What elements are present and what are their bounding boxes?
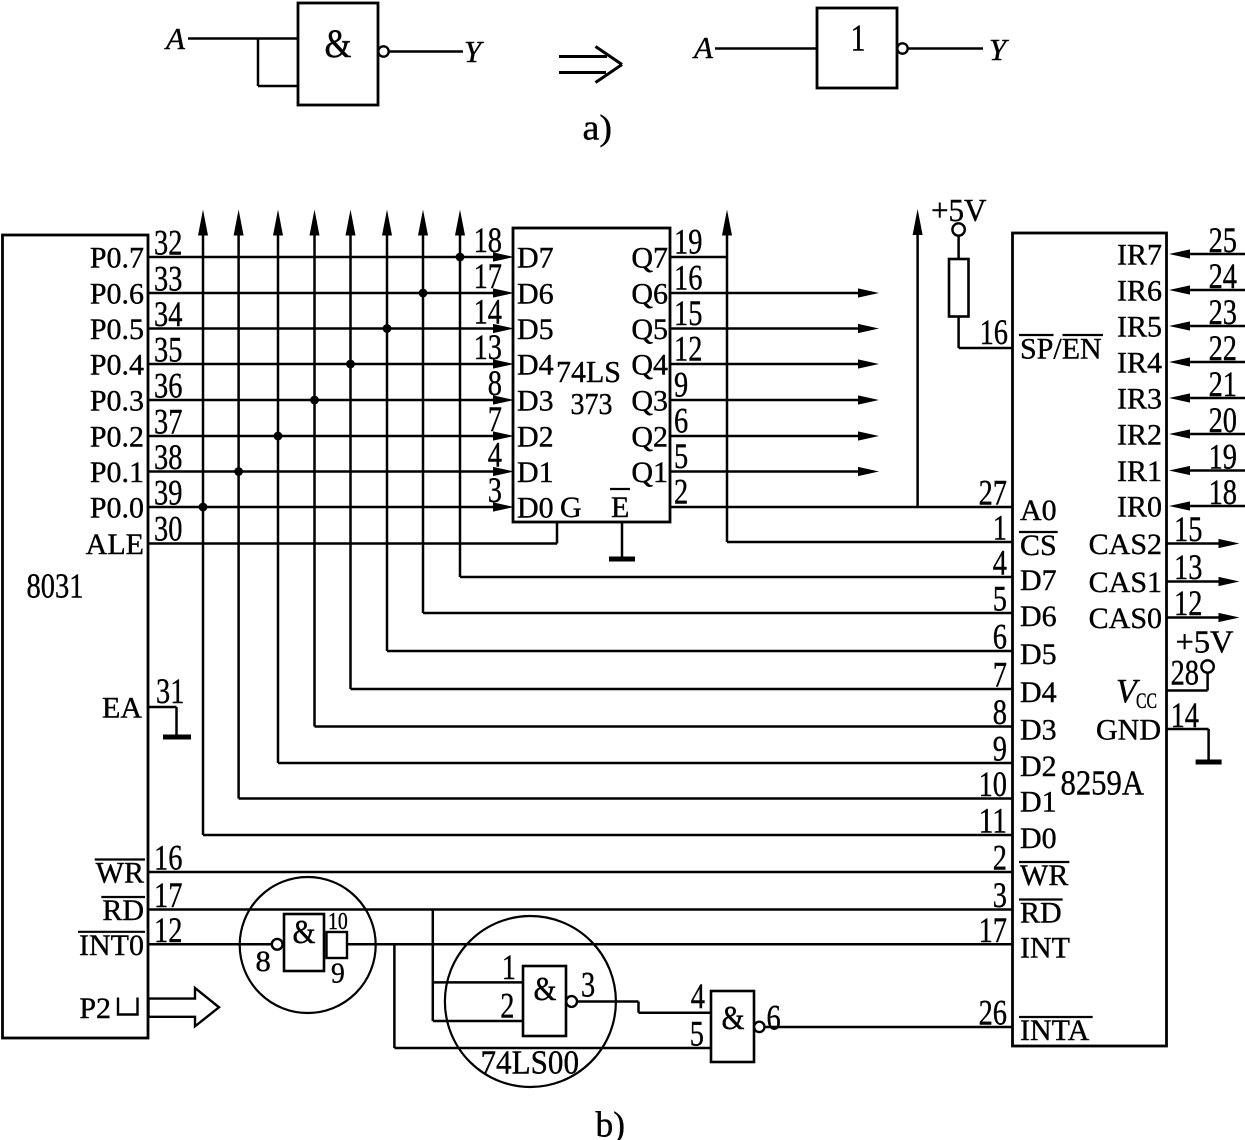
ground symbol (8259A GND) [1196,760,1222,765]
NAND gate U4B body [523,966,566,1036]
bus up-arrow A7 [455,210,465,236]
junction dot P0.0 / address bus tap [199,503,208,512]
arrowhead into 74LS373 D0 [493,502,514,511]
wire D2 to 8259A (horizontal) [278,762,1013,765]
wire ALE to 74LS373 G [148,542,557,545]
arrowhead into IR1 [1169,466,1190,475]
wire gate U4B pin 2 input [433,1020,523,1023]
svg-text:4: 4 [993,543,1007,583]
junction dot P0.3 / address bus tap [310,396,319,405]
svg-text:5: 5 [674,436,688,476]
wire Y output (right circuit) [908,47,983,50]
arrowhead CAS2 out [1219,539,1240,548]
svg-text:Q5: Q5 [631,313,668,346]
svg-text:D1: D1 [517,456,554,489]
wire Y output (left circuit) [389,50,463,53]
svg-text:3: 3 [581,965,595,1005]
svg-text:CAS2: CAS2 [1089,528,1162,561]
svg-text:D1: D1 [1020,786,1057,819]
svg-text:SP/EN: SP/EN [1020,333,1102,366]
svg-text:EA: EA [102,692,142,725]
NAND gate U4C (74LS00) body [711,991,754,1062]
wire Q2 latched address out [670,435,860,438]
svg-text:D0: D0 [517,492,554,525]
svg-text:10: 10 [979,764,1007,804]
svg-text:1: 1 [502,947,516,987]
8259A SP overline [1019,334,1054,336]
svg-text:D7: D7 [517,242,554,275]
svg-text:D4: D4 [1020,676,1057,709]
svg-text:INT0: INT0 [79,929,144,962]
svg-text:D0: D0 [1020,822,1057,855]
svg-text:D2: D2 [1020,750,1057,783]
8259A WR overline [1019,861,1069,863]
8031 RD overline [101,896,145,898]
arrowhead address bus Q1 [858,467,879,476]
svg-text:CAS0: CAS0 [1089,602,1162,635]
svg-text:4: 4 [691,976,705,1016]
svg-text:D6: D6 [517,278,554,311]
svg-text:8259A: 8259A [1061,764,1145,803]
wire P0.1 to 74LS373 D1 [148,470,496,473]
address/data bus vertical line A1/D1 [237,232,240,799]
svg-text:2: 2 [500,986,514,1026]
svg-text:13: 13 [1174,547,1202,587]
bus up-arrow A1 [234,210,244,236]
svg-text:9: 9 [993,729,1007,769]
wire RD bus (8031 to 8259A) [148,908,1013,911]
svg-text:24: 24 [1209,256,1237,296]
svg-text:6: 6 [674,401,688,441]
bus up-arrow A4 [346,210,356,236]
8031 INT0 overline [78,931,145,933]
address/data bus vertical line A0/D0 [202,232,205,835]
arrowhead into IR7 [1169,249,1190,258]
arrowhead into 74LS373 D2 [493,431,514,440]
svg-text:IR2: IR2 [1117,419,1162,452]
wire input tie branch (horizontal to gate) [258,85,299,88]
svg-text:8: 8 [256,945,271,978]
svg-text:A: A [164,21,186,56]
arrowhead CAS0 out [1219,613,1240,622]
svg-text:a): a) [583,108,613,148]
svg-text:P0.5: P0.5 [90,313,144,346]
svg-text:P0.4: P0.4 [90,349,144,382]
wire D4 to 8259A (horizontal) [351,688,1013,691]
svg-text:RD: RD [102,894,144,927]
junction dot P0.1 / address bus tap [234,467,243,476]
wire CAS0 cascade output [1167,616,1220,619]
wire WR bus (8031 to 8259A) [148,871,1013,874]
svg-text:D5: D5 [1020,638,1057,671]
wire INT0 from 8031 to gate U4A output bubble [148,943,272,946]
power +5V terminal (Vcc) [1201,660,1213,672]
svg-text:WR: WR [1020,859,1068,892]
svg-text:IR7: IR7 [1117,239,1162,272]
junction dot P0.4 / address bus tap [346,360,355,369]
svg-text:P0.0: P0.0 [90,492,144,525]
svg-text:GND: GND [1096,714,1161,747]
wire P0.0 to 74LS373 D0 [148,506,496,509]
arrowhead address bus Q6 [858,288,879,297]
wire E stub to ground [621,523,624,557]
svg-text:D3: D3 [1020,714,1057,747]
svg-text:&: & [293,914,316,951]
svg-text:21: 21 [1209,364,1237,404]
svg-text:8: 8 [488,363,502,403]
svg-text:b): b) [596,1105,626,1140]
wire gate U4C pin 5 input (horizontal) [394,1047,711,1050]
svg-text:17: 17 [474,256,502,296]
svg-text:&: & [534,971,557,1008]
svg-text:27: 27 [979,473,1007,513]
svg-text:RD: RD [1020,897,1062,930]
arrowhead address bus Q5 [858,324,879,333]
svg-text:P0.1: P0.1 [90,456,144,489]
svg-text:D3: D3 [517,385,554,418]
svg-text:7: 7 [488,399,502,439]
NAND gate U4B (74LS00) highlight circle [445,916,616,1087]
bus vertical A0 address line [916,232,919,507]
svg-text:IR3: IR3 [1117,383,1162,416]
svg-text:P2: P2 [79,992,111,1025]
arrowhead into 74LS373 D6 [493,288,514,297]
svg-text:1: 1 [851,18,866,60]
inverter U (a-right) output inversion bubble [897,43,907,53]
junction dot P0.2 / address bus tap [274,432,283,441]
svg-text:31: 31 [156,671,184,711]
NAND gate U4A output inversion bubble (pin 8) [272,939,283,950]
svg-text:6: 6 [767,998,781,1038]
svg-text:373: 373 [571,386,613,421]
svg-text:20: 20 [1209,400,1237,440]
svg-text:8: 8 [993,692,1007,732]
wire INT tap down to gate U4C pin 5 (vertical) [393,944,396,1048]
arrowhead into 74LS373 D1 [493,467,514,476]
ground symbol (8031 EA) [163,735,191,740]
wire P0.2 to 74LS373 D2 [148,435,496,438]
svg-text:IR5: IR5 [1117,311,1162,344]
svg-text:4: 4 [488,435,502,475]
arrowhead into IR2 [1169,429,1190,438]
inverter U (a-right) body [817,8,897,88]
wire gate U4B pin 1 input [433,981,523,984]
wire G stub (vertical into latch) [556,523,559,544]
address/data bus vertical line A4/D4 [349,232,352,689]
arrowhead into IR6 [1169,285,1190,294]
arrowhead into IR4 [1169,357,1190,366]
svg-text:9: 9 [674,365,688,405]
wire RD tap down to gate U4B inputs (vertical) [432,910,435,1022]
wire INTA net (U4C output to 8259A INTA) [765,1026,1013,1029]
bus up-arrow A3 [310,210,320,236]
wire P0.5 to 74LS373 D5 [148,327,496,330]
junction dot P0.6 / address bus tap [419,289,428,298]
svg-text:ALE: ALE [86,528,144,561]
arrowhead address bus Q4 [858,359,879,368]
wire IR4 interrupt request input [1189,361,1245,364]
NAND gate (a-left) output inversion bubble [378,46,388,56]
wire P0.6 to 74LS373 D6 [148,292,496,295]
wire Q1 latched address out [670,470,860,473]
wire resistor R1 to SP/EN (vertical) [957,317,960,349]
arrowhead into IR5 [1169,321,1190,330]
svg-text:2: 2 [674,472,688,512]
svg-text:IR6: IR6 [1117,275,1162,308]
address/data bus vertical line A6/D6 [422,232,425,613]
svg-text:IR0: IR0 [1117,491,1162,524]
wire EA to ground [148,706,177,709]
svg-text:&: & [722,1000,745,1037]
wire Vcc pin to +5V terminal (vertical) [1206,673,1209,691]
svg-text:74LS: 74LS [556,354,621,389]
IC U2 74LS373 latch body [513,228,670,522]
svg-text:11: 11 [979,801,1007,841]
arrowhead into 74LS373 D7 [493,252,514,261]
svg-text:A: A [692,30,714,65]
bus up-arrow A6 [418,210,428,236]
svg-text:D4: D4 [517,349,554,382]
svg-text:D2: D2 [517,421,554,454]
svg-text:14: 14 [474,292,502,332]
NAND gate U4B output inversion bubble (pin 3) [566,996,577,1007]
arrowhead CAS1 out [1219,577,1240,586]
arrowhead address bus Q3 [858,395,879,404]
svg-text:18: 18 [1209,472,1237,512]
ground symbol (74LS373 E) [609,557,635,562]
wire CS from Q7 vertical to 8259A CS [727,541,1013,544]
IC U1 8031 microcontroller body [3,235,149,1038]
svg-text:Q3: Q3 [631,385,668,418]
NAND gate (a-left) body [298,3,378,105]
svg-text:Q2: Q2 [631,421,668,454]
svg-text:INT: INT [1020,931,1070,964]
bus up-arrow A0 address line [913,209,923,235]
wire D3 to 8259A (horizontal) [315,725,1013,728]
svg-text:1: 1 [993,508,1007,548]
svg-text:16: 16 [674,258,702,298]
svg-text:A0: A0 [1020,494,1057,527]
wire IR7 interrupt request input [1189,253,1245,256]
8259A CS overline [1019,531,1058,533]
P2 bus open arrow [149,988,220,1026]
IC U3 8259A interrupt controller body [1013,233,1167,1046]
8259A RD overline [1019,898,1063,900]
arrowhead address bus Q2 [858,431,879,440]
svg-text:10: 10 [328,909,348,935]
svg-text:15: 15 [674,293,702,333]
bus vertical Q7 / chip-select line [726,232,729,542]
arrowhead into 74LS373 D3 [493,395,514,404]
wire U4B output jog (vertical) [637,1002,640,1013]
wire D7 to 8259A (horizontal) [460,576,1013,579]
U4A input tie (pins 9-10 strap) [327,932,348,958]
svg-text:&: & [325,21,352,66]
svg-text:P0.6: P0.6 [90,278,144,311]
svg-text:3: 3 [488,470,502,510]
74LS373 E overline [610,488,630,490]
arrowhead into IR0 [1169,501,1190,510]
svg-text:D7: D7 [1020,564,1057,597]
svg-text:P0.2: P0.2 [90,421,144,454]
svg-text:5: 5 [690,1014,704,1054]
wire CAS1 cascade output [1167,580,1220,583]
svg-text:6: 6 [993,617,1007,657]
svg-text:22: 22 [1209,328,1237,368]
8031 WR overline [95,858,145,860]
wire D0 to 8259A (horizontal) [203,834,1013,837]
svg-text:25: 25 [1209,220,1237,260]
svg-text:Q4: Q4 [631,349,668,382]
wire GND pin (horizontal) [1167,728,1209,731]
svg-text:19: 19 [674,222,702,262]
wire GND pin (vertical) [1207,729,1210,760]
svg-text:G: G [560,491,582,524]
wire D5 to 8259A (horizontal) [387,650,1013,653]
wire CAS2 cascade output [1167,542,1220,545]
svg-text:Q6: Q6 [631,278,668,311]
wire A0 latched (74LS373 pin2 to 8259A A0) [670,506,1013,509]
wire IR6 interrupt request input [1189,289,1245,292]
svg-text:Y: Y [989,32,1009,67]
address/data bus vertical line A5/D5 [386,232,389,651]
junction dot P0.7 / address bus tap [456,253,465,262]
wire Vcc pin to +5V terminal (horizontal) [1167,689,1208,692]
wire Q4 latched address out [670,363,860,366]
wire IR5 interrupt request input [1189,325,1245,328]
svg-text:13: 13 [474,327,502,367]
svg-text:Q7: Q7 [631,242,668,275]
svg-text:E: E [611,491,629,524]
wire INT net (gate U4A inputs to 8259A INT) [347,943,1013,946]
wire P0.3 to 74LS373 D3 [148,399,496,402]
wire Q6 latched address out [670,292,860,295]
svg-text:CAS1: CAS1 [1089,566,1162,599]
arrowhead into 74LS373 D4 [493,359,514,368]
arrowhead into 74LS373 D5 [493,324,514,333]
svg-text:19: 19 [1209,437,1237,477]
8259A EN overline [1063,334,1104,336]
P2 bus bracket symbol [118,998,138,1015]
power +5V terminal (pull-up) [952,223,964,235]
svg-text:IR4: IR4 [1117,347,1162,380]
svg-text:15: 15 [1174,509,1202,549]
svg-text:9: 9 [331,959,345,990]
svg-text:28: 28 [1171,653,1199,693]
svg-text:23: 23 [1209,292,1237,332]
address/data bus vertical line A7/D7 [459,232,462,577]
svg-text:Q1: Q1 [631,456,668,489]
svg-text:16: 16 [980,312,1008,352]
bus up-arrow A0 [198,210,208,236]
bus up-arrow A5 [382,210,392,236]
svg-text:12: 12 [674,329,702,369]
wire U4C pin 4 input [639,1011,712,1014]
svg-text:D5: D5 [517,313,554,346]
NAND gate U4A (74LS00, inverter) highlight circle [240,877,376,1013]
svg-text:P0.7: P0.7 [90,242,144,275]
svg-text:WR: WR [96,857,144,890]
NAND gate U4C output inversion bubble (pin 6) [754,1022,764,1032]
wire A input (right circuit) [715,47,818,50]
wire resistor R1 to SP/EN (horizontal) [959,347,1013,350]
wire D1 to 8259A (horizontal) [239,797,1013,800]
wire EA ground stub (vertical) [175,707,178,735]
wire P0.7 to 74LS373 D7 [148,256,496,259]
wire Q7 stub to CS vertical [670,256,727,259]
svg-text:74LS00: 74LS00 [481,1045,580,1082]
svg-text:IR1: IR1 [1117,455,1162,488]
wire IR0 interrupt request input [1189,505,1245,508]
wire IR3 interrupt request input [1189,397,1245,400]
svg-text:Y: Y [464,34,484,69]
svg-text:D6: D6 [1020,600,1057,633]
resistor R1 (SP/EN pull-up) [949,259,969,317]
wire input tie branch (vertical) [257,39,260,87]
svg-text:8031: 8031 [27,567,84,606]
junction dot P0.5 / address bus tap [383,324,392,333]
svg-text:CC: CC [1136,688,1157,713]
bus up-arrow Q7 address line [722,210,732,236]
address/data bus vertical line A2/D2 [277,232,280,763]
wire D6 to 8259A (horizontal) [423,612,1013,615]
svg-text:INTA: INTA [1020,1014,1090,1047]
wire A input [188,37,299,40]
svg-text:7: 7 [993,655,1007,695]
8259A INTA overline [1019,1016,1093,1018]
svg-text:12: 12 [1174,583,1202,623]
NAND gate U4A body [284,914,324,971]
wire Q5 latched address out [670,327,860,330]
svg-text:P0.3: P0.3 [90,385,144,418]
wire Q3 latched address out [670,399,860,402]
wire IR2 interrupt request input [1189,433,1245,436]
svg-text:18: 18 [474,220,502,260]
wire IR1 interrupt request input [1189,469,1245,472]
address/data bus vertical line A3/D3 [313,232,316,727]
svg-text:5: 5 [993,579,1007,619]
wire U4B output to U4C pin 4 (horizontal) [577,1000,639,1003]
bus up-arrow A2 [273,210,283,236]
implication arrow (double arrow) [559,47,622,83]
arrowhead into IR3 [1169,393,1190,402]
wire P0.4 to 74LS373 D4 [148,363,496,366]
svg-text:CS: CS [1020,529,1057,562]
wire +5V terminal to resistor R1 [957,236,960,260]
